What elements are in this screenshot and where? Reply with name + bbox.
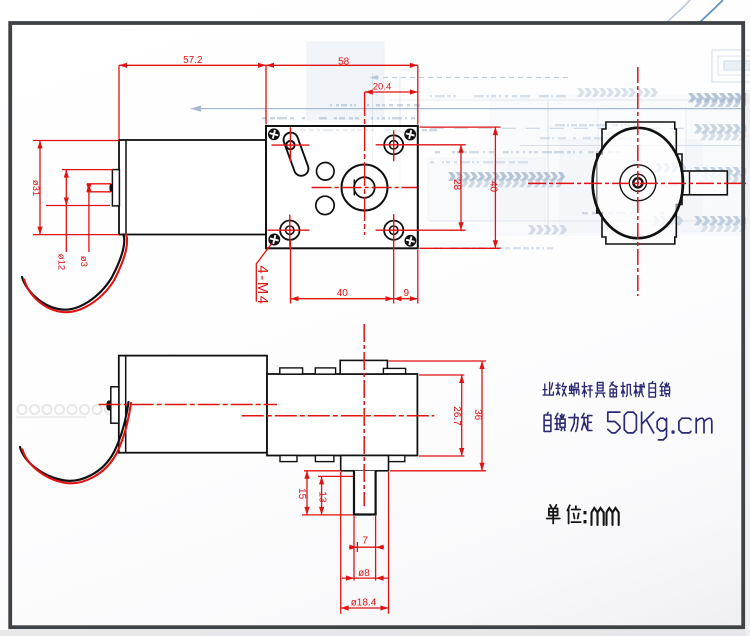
end view ellipse — [593, 128, 683, 238]
svg-text:ø8: ø8 — [358, 568, 370, 579]
screw top-right — [405, 129, 416, 140]
annotation line 1 — [543, 382, 670, 398]
svg-text:40: 40 — [488, 181, 499, 193]
bottom view: motor body — [119, 356, 267, 453]
output collar — [341, 456, 389, 471]
hole bottom-left — [280, 221, 299, 240]
bottom view: gearbox housing — [267, 374, 417, 456]
top view: motor body — [119, 140, 266, 235]
svg-text:ø18.4: ø18.4 — [351, 598, 377, 609]
label 4-M4 with leader — [254, 244, 271, 306]
output shaft — [354, 471, 376, 515]
outside shading — [0, 630, 750, 636]
dim 20.4 — [365, 82, 418, 95]
svg-text:26.7: 26.7 — [451, 406, 462, 426]
dim 58 — [266, 57, 418, 125]
end view circles — [620, 165, 656, 201]
svg-text:4-M4: 4-M4 — [254, 265, 271, 305]
end view shaft — [682, 171, 727, 195]
svg-text:36: 36 — [472, 409, 483, 421]
dim 28 — [398, 145, 466, 230]
plate centerlines — [312, 187, 418, 189]
dim phi3 — [78, 184, 111, 267]
dim 26.7 — [419, 375, 464, 456]
dim phi18.4 — [341, 472, 389, 614]
data bit rows — [330, 104, 420, 106]
screw bottom-left — [269, 234, 280, 245]
dim phi8 — [342, 516, 388, 581]
dim phi31 — [30, 141, 119, 235]
bottom view wires — [20, 402, 131, 483]
hole top-right — [384, 135, 403, 154]
gear boss circle — [342, 165, 388, 211]
svg-text:9: 9 — [404, 288, 410, 299]
top tabs — [280, 368, 303, 374]
dim 36 — [389, 361, 487, 471]
dim phi12 — [46, 170, 113, 271]
svg-text:ø12: ø12 — [55, 254, 66, 270]
svg-text:13: 13 — [317, 491, 328, 503]
top view: shaft tip — [109, 184, 112, 192]
dim 40 right — [420, 127, 501, 248]
corner arcs — [668, 0, 690, 21]
screw top-left — [268, 129, 279, 140]
dim 9 — [394, 250, 418, 304]
svg-text:7: 7 — [362, 536, 368, 547]
screw bottom-right — [405, 235, 416, 246]
dim 40 bottom — [291, 241, 394, 304]
dim 7 — [349, 536, 384, 553]
worm boss block — [340, 360, 387, 374]
svg-text:20.4: 20.4 — [373, 82, 392, 93]
50Kg.cm — [608, 412, 712, 440]
annotation line 2: zisuo moment — [544, 413, 592, 432]
svg-text:ø3: ø3 — [78, 256, 89, 267]
slot obround — [282, 131, 311, 178]
bottom view: bearing boss — [111, 387, 119, 423]
hole top-left — [286, 141, 294, 149]
top view: gearbox plate — [266, 126, 418, 248]
small circles on plate — [317, 163, 335, 181]
svg-text:40: 40 — [337, 288, 349, 299]
chevron bands — [577, 88, 658, 97]
faint watermark — [17, 405, 114, 414]
dim 57.2 — [119, 55, 266, 139]
hole bottom-right — [384, 221, 403, 240]
background tech collage — [190, 42, 750, 235]
svg-text:28: 28 — [451, 179, 462, 191]
bottom view: shaft tip — [106, 401, 110, 411]
top view wires — [22, 235, 127, 313]
unit label — [547, 505, 619, 525]
svg-text:15: 15 — [296, 488, 307, 500]
svg-text:ø31: ø31 — [30, 180, 41, 196]
end view body — [597, 122, 682, 244]
bottom tabs — [280, 456, 297, 462]
svg-text:57.2: 57.2 — [183, 55, 203, 66]
end view centerlines — [637, 67, 639, 296]
dim 15 — [296, 471, 341, 515]
dim 13 — [302, 476, 353, 515]
svg-text:58: 58 — [338, 57, 350, 68]
top view: bearing boss — [112, 170, 119, 206]
bottom view centerlines — [99, 404, 277, 406]
